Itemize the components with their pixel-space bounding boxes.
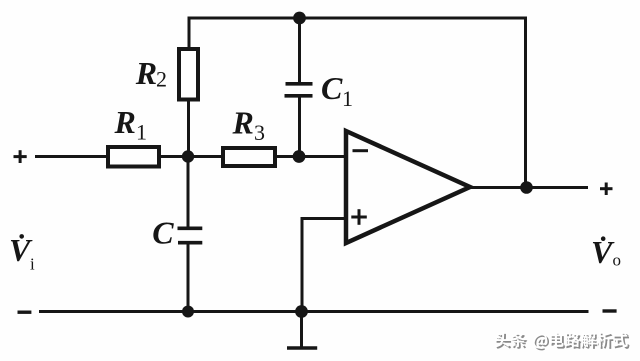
wire op-amp noninverting input [302,217,346,220]
capacitor C1 [285,84,313,96]
label Vo [591,234,621,270]
svg-text:R: R [135,55,157,91]
bottom-left - terminal [18,311,32,314]
svg-text:1: 1 [136,120,147,145]
node bottom C junction dot [182,306,194,318]
svg-text:o: o [613,251,622,270]
wire R3 to node B [276,155,300,158]
node output junction dot [520,181,533,194]
svg-text:i: i [30,255,35,274]
wire feedback vertical [524,17,527,189]
svg-text:C: C [152,215,174,251]
svg-text:R: R [232,105,254,141]
node top junction dot [293,12,306,25]
top feedback wire [189,17,526,20]
wire node B to op-amp inverting input [299,155,346,158]
node A junction dot [182,150,194,162]
svg-text:R: R [114,104,136,140]
capacitor C [178,228,203,242]
label R3 [232,105,266,146]
wire R2 to node A [187,100,190,158]
wire node A down to C [187,157,190,229]
wire input to R1 [35,155,107,158]
node bottom ground junction dot [295,305,308,318]
wire C1 to node B [298,96,301,157]
node B junction dot [293,150,306,163]
wire top junction down to C1 [298,17,301,84]
wire op-amp output [469,186,588,189]
resistor R1 [108,147,159,167]
wire node A to R3 [188,155,222,158]
svg-text:3: 3 [254,120,265,145]
bottom-right - terminal [603,309,617,312]
wire C to bottom wire [187,243,190,312]
label C1 [321,70,353,111]
label R2 [135,55,167,91]
svg-text:2: 2 [156,67,167,92]
label R1 [114,104,148,144]
label Vi [9,232,35,274]
ground [287,312,317,349]
svg-text:C: C [321,70,343,106]
wire noninverting input down to ground node [301,217,304,312]
output + terminal [600,183,613,196]
wire R1 to node A [160,155,189,158]
wire top wire down to R2 [188,17,191,50]
resistor R3 [223,148,275,166]
op-amp U1 [346,131,470,243]
svg-text:V: V [591,234,615,270]
svg-text:1: 1 [342,86,353,111]
bottom wire [39,310,589,313]
resistor R2 [179,49,198,100]
input + terminal [14,150,27,163]
